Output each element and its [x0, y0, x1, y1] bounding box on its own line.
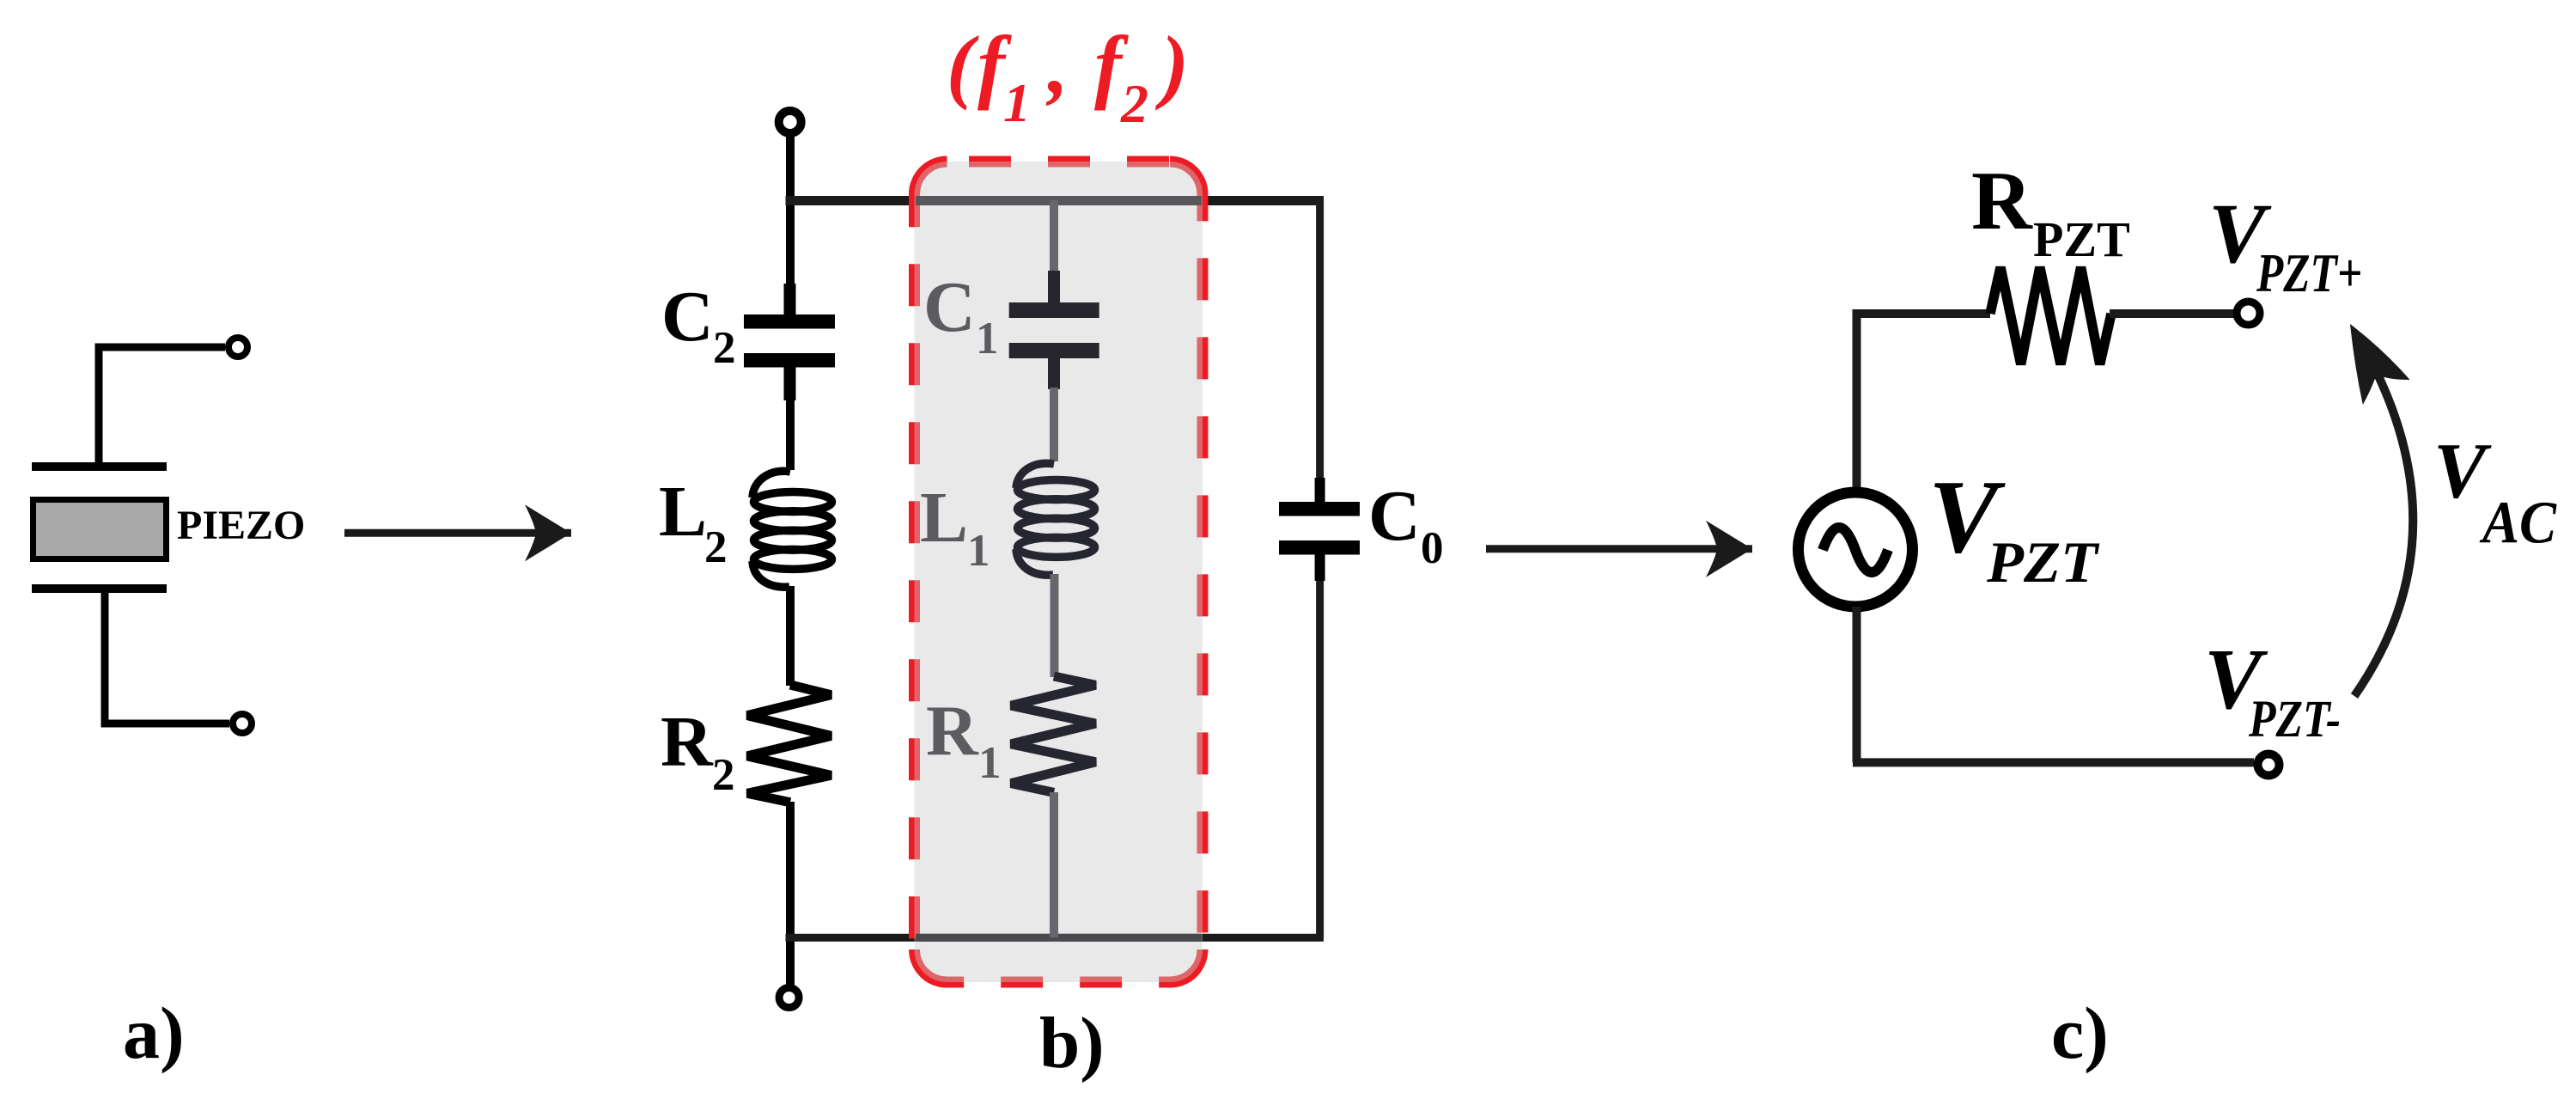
svg-text:PZT: PZT — [1986, 529, 2100, 595]
svg-text:L: L — [659, 472, 707, 552]
terminal bottom-b — [779, 988, 799, 1008]
capacitor C1 plate1 — [1009, 302, 1099, 318]
wire C1 to L1 — [1050, 388, 1058, 461]
capacitor C0 branch wire — [1316, 200, 1324, 504]
wire bottom-a — [105, 593, 229, 724]
wire terminal to C2 — [786, 133, 795, 314]
svg-text:c): c) — [2051, 992, 2109, 1074]
wire L2 to R2 — [786, 586, 795, 686]
terminal bottom-a — [233, 714, 252, 733]
svg-text:2: 2 — [713, 323, 736, 373]
terminal V_PZT- — [2258, 754, 2280, 776]
resistor R2 — [747, 685, 831, 803]
svg-text:C: C — [661, 277, 714, 357]
wire R2 to bottom bus — [786, 802, 795, 985]
resistor R_PZT — [1990, 267, 2111, 364]
V_AC curved arrow — [2354, 363, 2413, 696]
wire source to bottom — [1853, 607, 2254, 762]
top bus — [786, 196, 1325, 205]
AC source circle — [1799, 492, 1913, 607]
dashed box corner dashes — [915, 162, 1203, 982]
svg-text:PZT-: PZT- — [2248, 691, 2341, 748]
C2 lead stubs — [784, 367, 796, 400]
svg-text:C: C — [923, 267, 976, 347]
svg-text:1: 1 — [967, 526, 990, 576]
svg-text:0: 0 — [1421, 523, 1444, 573]
capacitor C1 plate2 — [1009, 343, 1099, 358]
piezo bottom plate — [32, 584, 167, 593]
resistor R1 — [1011, 676, 1095, 792]
terminal top-b — [779, 111, 801, 133]
svg-text:L: L — [920, 478, 968, 558]
svg-text:AC: AC — [2479, 491, 2557, 557]
wire C2 to L2 — [786, 399, 795, 470]
svg-text:PIEZO: PIEZO — [177, 503, 305, 548]
grey translucent overlay — [915, 162, 1203, 982]
svg-text:PZT+: PZT+ — [2256, 242, 2362, 303]
svg-text:2: 2 — [712, 750, 735, 800]
svg-text:1: 1 — [1003, 72, 1031, 133]
svg-text:a): a) — [123, 992, 185, 1074]
svg-text:R: R — [661, 702, 714, 782]
C1 lead stub top — [1048, 271, 1060, 303]
wire L1 to R1 — [1050, 574, 1059, 677]
bottom bus segment inside box — [916, 934, 1202, 942]
arrow b to c — [1486, 545, 1752, 553]
capacitor C2 plate2 — [744, 353, 835, 368]
svg-text:1: 1 — [976, 314, 999, 363]
wire R_PZT to terminal — [2110, 309, 2235, 318]
svg-text:R: R — [1971, 155, 2033, 247]
capacitor C0 plate2 — [1279, 540, 1360, 555]
svg-text:2: 2 — [704, 522, 728, 572]
bottom bus — [786, 934, 1325, 942]
arrow a to b — [344, 529, 571, 537]
wire top-a — [99, 347, 225, 464]
capacitor C0 plate1 — [1279, 502, 1360, 516]
terminal V_PZT+ — [2237, 302, 2260, 325]
red label (f1 , f2) — [947, 19, 1189, 134]
piezo top plate — [32, 462, 167, 471]
sine symbol — [1823, 528, 1888, 572]
top bus segment inside box — [916, 196, 1202, 205]
svg-text:,: , — [1045, 19, 1069, 111]
terminal top-a — [228, 338, 247, 357]
piezo crystal body — [33, 500, 167, 559]
C2 lead stub top — [784, 284, 796, 316]
capacitor C2 plate1 — [744, 314, 835, 329]
inductor L1 — [1016, 463, 1095, 575]
svg-text:1: 1 — [978, 738, 1002, 788]
svg-text:R: R — [926, 692, 979, 772]
svg-text:2: 2 — [1120, 73, 1148, 134]
svg-text:b): b) — [1039, 1003, 1105, 1084]
svg-text:C: C — [1368, 476, 1421, 556]
svg-text:PZT: PZT — [2033, 211, 2130, 267]
C1 lead stub bottom — [1048, 357, 1060, 389]
wire bus to C1 — [1050, 200, 1058, 273]
wire R1 to bottom bus — [1050, 792, 1058, 937]
inductor L2 — [752, 471, 832, 587]
top wire left — [1853, 309, 1990, 492]
